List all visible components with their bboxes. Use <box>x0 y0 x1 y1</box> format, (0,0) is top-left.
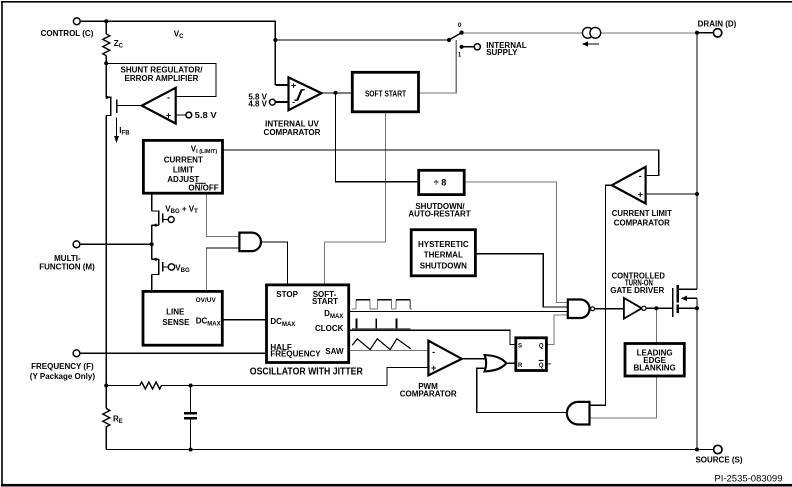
svg-text:SHUNT REGULATOR/: SHUNT REGULATOR/ <box>121 65 204 74</box>
svg-text:AUTO-RESTART: AUTO-RESTART <box>408 209 470 218</box>
svg-text:÷ 8: ÷ 8 <box>434 177 446 187</box>
svg-text:MULTI-: MULTI- <box>54 254 81 263</box>
svg-text:Q: Q <box>539 363 544 369</box>
svg-text:BLANKING: BLANKING <box>633 364 675 373</box>
svg-text:HYSTERETIC: HYSTERETIC <box>418 240 469 249</box>
svg-text:+: + <box>431 363 436 373</box>
svg-text:ERROR AMPLIFIER: ERROR AMPLIFIER <box>125 74 199 83</box>
svg-text:5.8 V: 5.8 V <box>195 111 218 120</box>
svg-text:SOURCE (S): SOURCE (S) <box>695 455 742 464</box>
svg-text:+: + <box>638 189 643 199</box>
svg-text:COMPARATOR: COMPARATOR <box>400 389 457 398</box>
svg-text:+: + <box>166 111 171 121</box>
svg-text:START: START <box>312 297 338 306</box>
svg-text:CURRENT LIMIT: CURRENT LIMIT <box>612 209 672 218</box>
svg-text:SENSE: SENSE <box>162 318 190 327</box>
svg-text:SOFT START: SOFT START <box>365 89 406 98</box>
svg-text:FREQUENCY: FREQUENCY <box>270 349 321 358</box>
svg-text:PI-2535-083099: PI-2535-083099 <box>714 473 782 484</box>
svg-text:FUNCTION (M): FUNCTION (M) <box>39 263 95 272</box>
svg-text:-: - <box>292 97 295 107</box>
svg-text:-: - <box>167 93 170 103</box>
svg-text:DRAIN (D): DRAIN (D) <box>698 20 737 29</box>
svg-text:SAW: SAW <box>325 347 344 356</box>
svg-text:+: + <box>291 80 296 90</box>
svg-text:GATE DRIVER: GATE DRIVER <box>610 286 664 295</box>
svg-text:COMPARATOR: COMPARATOR <box>264 128 321 137</box>
svg-text:LIMIT: LIMIT <box>173 165 194 174</box>
svg-text:SUPPLY: SUPPLY <box>486 48 518 57</box>
svg-text:THERMAL: THERMAL <box>424 251 463 260</box>
svg-text:CONTROL (C): CONTROL (C) <box>41 29 94 38</box>
svg-text:R: R <box>518 363 523 369</box>
svg-text:STOP: STOP <box>276 290 298 299</box>
svg-text:LINE: LINE <box>166 308 185 317</box>
svg-text:-: - <box>639 171 642 181</box>
svg-text:4.8 V: 4.8 V <box>248 100 267 109</box>
svg-text:INTERNAL UV: INTERNAL UV <box>265 119 319 128</box>
svg-text:(Y Package Only): (Y Package Only) <box>30 372 96 381</box>
svg-text:OSCILLATOR WITH JITTER: OSCILLATOR WITH JITTER <box>250 365 363 377</box>
svg-text:Q: Q <box>539 343 544 349</box>
svg-text:ON/OFF: ON/OFF <box>188 184 218 193</box>
svg-text:COMPARATOR: COMPARATOR <box>614 219 670 228</box>
svg-text:S: S <box>518 343 522 349</box>
svg-text:OV/UV: OV/UV <box>196 297 217 304</box>
svg-text:CURRENT: CURRENT <box>164 155 203 164</box>
svg-text:VBG + VT: VBG + VT <box>165 204 198 215</box>
svg-text:FREQUENCY (F): FREQUENCY (F) <box>31 362 94 371</box>
svg-text:-: - <box>432 347 435 357</box>
svg-text:CLOCK: CLOCK <box>315 324 344 333</box>
svg-text:SHUTDOWN: SHUTDOWN <box>420 262 467 271</box>
